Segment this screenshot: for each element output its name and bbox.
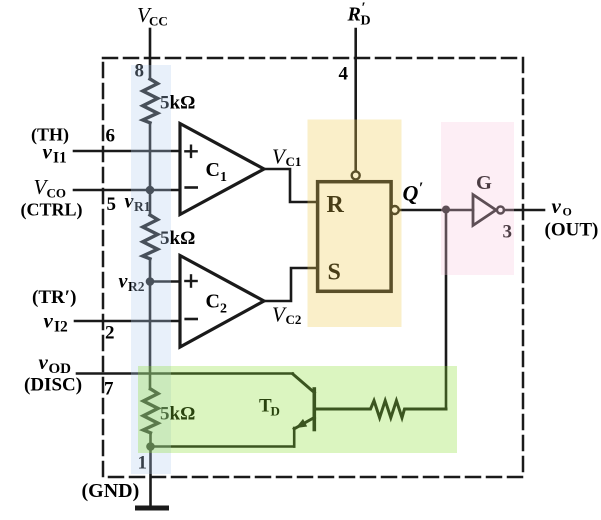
- svg-text:v: v: [552, 194, 562, 218]
- wire chain R2 to R3: [149, 259, 152, 389]
- resistor base zigzag: [316, 401, 446, 418]
- wire ground rail from node 1 to emitter: [151, 445, 295, 448]
- latch box SR: [318, 182, 392, 292]
- latch Q' output bubble: [391, 206, 399, 214]
- latch top reset bubble: [352, 171, 360, 179]
- highlight pink output region: [441, 122, 514, 275]
- svg-text:C: C: [206, 291, 220, 313]
- svg-text:CC: CC: [149, 14, 168, 29]
- dashed IC boundary box: [103, 58, 523, 477]
- svg-text:7: 7: [104, 379, 114, 400]
- inverter G triangle: [473, 195, 496, 226]
- svg-text:(TR′): (TR′): [32, 287, 76, 308]
- highlight green discharge region: [138, 366, 457, 453]
- wire RD pin4 down to latch top bubble: [354, 29, 357, 172]
- svg-text:R: R: [347, 4, 361, 26]
- op-amp C1 minus sign: [186, 186, 197, 189]
- node vR1 junction dot: [146, 186, 155, 195]
- svg-text:(CTRL): (CTRL): [21, 200, 83, 221]
- op-amp C2 minus sign: [186, 318, 197, 321]
- svg-text:O: O: [563, 205, 572, 219]
- wire Q' to inverter G: [399, 209, 473, 212]
- wire CTRL pin5 to C1 - input: [74, 189, 180, 192]
- transistor TD collector diagonal: [293, 374, 315, 393]
- svg-text:(DISC): (DISC): [24, 375, 82, 396]
- resistor R3 5k zigzag: [143, 389, 158, 433]
- svg-text:1: 1: [220, 170, 227, 185]
- svg-text:′: ′: [419, 180, 424, 197]
- svg-text:(OUT): (OUT): [545, 220, 599, 241]
- highlight yellow latch region: [308, 120, 402, 328]
- wire C2 output to S input of latch: [264, 268, 316, 301]
- ground symbol: [138, 506, 167, 511]
- transistor TD emitter arrowhead: [296, 419, 308, 428]
- wire Q' node down to base resistor: [445, 210, 448, 409]
- svg-text:I2: I2: [54, 319, 68, 336]
- wire chain R1 to R2: [149, 123, 152, 215]
- node vR2 junction dot: [146, 277, 155, 286]
- svg-text:2: 2: [105, 323, 115, 344]
- resistor R2 5k zigzag: [143, 215, 158, 259]
- transistor TD base bar: [312, 389, 316, 430]
- wire emitter down to ground rail: [293, 428, 296, 447]
- svg-text:Q: Q: [403, 181, 419, 206]
- svg-text:CO: CO: [47, 186, 67, 201]
- svg-text:v: v: [44, 309, 54, 333]
- op-amp C1 plus sign: [185, 150, 196, 152]
- wire chain R3 to ground: [149, 433, 152, 508]
- node Q' junction dot: [442, 206, 450, 214]
- op-amp C2 plus sign: [185, 280, 196, 282]
- svg-text:D: D: [361, 14, 371, 29]
- svg-text:2: 2: [220, 302, 227, 317]
- op-amp C2 comparator triangle: [180, 256, 264, 348]
- svg-text:v: v: [39, 350, 49, 374]
- transistor TD emitter diagonal: [294, 418, 314, 429]
- svg-text:v: v: [119, 271, 129, 293]
- svg-text:I1: I1: [53, 150, 67, 167]
- svg-text:C: C: [206, 159, 220, 181]
- wire Vcc down to pin 8: [149, 29, 152, 79]
- wire DISC pin7 to transistor collector: [77, 372, 293, 375]
- wire TR pin2 to C2 - input: [75, 320, 180, 323]
- svg-text:4: 4: [339, 64, 349, 85]
- svg-text:6: 6: [106, 126, 116, 147]
- inverter G output bubble: [497, 207, 504, 214]
- wire TH pin6 to C1 + input: [74, 150, 180, 153]
- svg-text:C2: C2: [286, 312, 302, 327]
- resistor R1 5k zigzag: [143, 79, 158, 123]
- wire vR2 node to C2 + input: [150, 280, 180, 283]
- wire G output to pin3 vO: [504, 209, 544, 212]
- node pin1 ground junction dot: [146, 442, 155, 451]
- highlight blue resistor chain band: [131, 65, 171, 474]
- op-amp C1 comparator triangle: [180, 124, 264, 215]
- wire C1 output to R input of latch: [264, 169, 316, 202]
- svg-text:5: 5: [107, 194, 117, 215]
- svg-text:v: v: [43, 140, 53, 164]
- svg-text:C1: C1: [286, 154, 302, 169]
- svg-text:(GND): (GND): [82, 480, 140, 502]
